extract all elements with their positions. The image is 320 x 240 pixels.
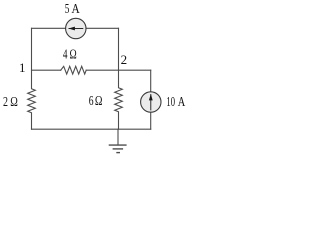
svg-text:1: 1 <box>19 60 26 75</box>
label 10 A <box>166 95 185 110</box>
svg-text:6: 6 <box>89 94 94 109</box>
resistor R 2ohm left branch with wires <box>28 28 36 129</box>
current source I1 5A arrow (points left) <box>68 27 83 31</box>
wire middle horizontal with resistor gap <box>32 69 61 71</box>
svg-text:2: 2 <box>3 95 8 110</box>
wire middle right segment <box>86 69 151 71</box>
svg-text:A: A <box>178 95 186 110</box>
label 6 ohm <box>89 94 103 109</box>
ground symbol bars <box>109 145 127 153</box>
resistor R 4ohm zigzag <box>61 66 86 74</box>
current source I2 10A arrow (points up) <box>149 94 153 111</box>
current source I2 10A circle <box>141 92 161 112</box>
svg-text:Ω: Ω <box>70 48 77 63</box>
label 2 ohm <box>3 95 18 110</box>
wire right branch <box>150 70 152 129</box>
svg-text:4: 4 <box>63 48 68 63</box>
label 5 A <box>65 2 81 17</box>
svg-text:Ω: Ω <box>95 94 103 109</box>
svg-text:10: 10 <box>166 95 175 110</box>
label 4 ohm <box>63 48 77 63</box>
svg-text:2: 2 <box>121 52 128 67</box>
current source I1 5A circle <box>66 18 86 38</box>
svg-text:Ω: Ω <box>10 95 18 110</box>
wire top: node1 top-left corner to node2 vertical <box>32 27 119 29</box>
svg-text:5: 5 <box>65 2 70 17</box>
ground stub wire <box>117 129 119 145</box>
wire bottom <box>32 128 151 130</box>
svg-text:A: A <box>72 2 81 17</box>
resistor R 6ohm middle branch with wires <box>115 28 123 129</box>
